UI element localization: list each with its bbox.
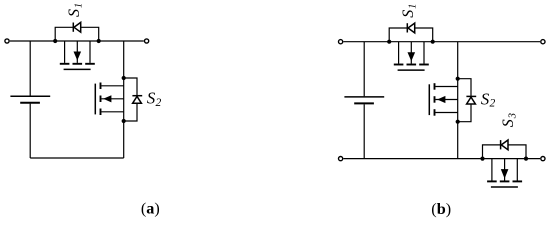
junction: S2 loop top node (a) — [122, 76, 126, 80]
junction: S3 right node (b) — [524, 157, 528, 161]
battery cell (a): negative plate — [20, 102, 40, 104]
transistor S1 MOSFET (a): body arrow — [74, 52, 82, 61]
wire: top bus (a) — [10, 40, 144, 42]
transistor S2 MOSFET (b): drain lead — [435, 86, 457, 88]
switch S1 (b): antiparallel-diode branch wire — [389, 28, 433, 42]
svg-text:(b): (b) — [431, 200, 451, 218]
transistor S3 MOSFET (b): channel segments — [487, 180, 522, 182]
transistor S2 MOSFET (b): channel segments — [434, 83, 436, 116]
node: left input terminal (a) — [5, 39, 9, 43]
transistor S1 MOSFET (a): source lead — [89, 41, 91, 63]
wire: battery positive lead (b) — [363, 42, 365, 97]
wire: bottom return bus (b) — [343, 158, 540, 160]
wire: bottom return bus (a) — [30, 157, 124, 159]
svg-text:S3: S3 — [500, 113, 519, 127]
transistor S1 MOSFET (b): body lead — [410, 42, 412, 64]
transistor S2 MOSFET (b): body lead — [435, 99, 457, 101]
transistor S2 MOSFET (a): source lead — [101, 111, 123, 113]
junction: S2 loop bottom node (b) — [456, 120, 460, 124]
transistor S3 MOSFET (b): body lead — [504, 159, 506, 181]
battery cell (b): positive plate — [344, 96, 384, 98]
svg-text:S2: S2 — [481, 89, 496, 109]
transistor S1 MOSFET (a): body lead — [76, 41, 78, 63]
transistor S1 MOSFET (a): drain lead — [64, 41, 66, 63]
transistor S2 MOSFET (b): source lead — [435, 112, 457, 114]
diode of S3 (b): triangle — [501, 140, 508, 150]
diode of S2 (b): cathode bar — [466, 95, 476, 97]
wire: battery negative lead (a) — [29, 104, 31, 158]
junction: S1 left node (a) — [53, 39, 57, 43]
wire: S2 antiparallel diode loop (a) — [124, 78, 137, 121]
transistor S2 MOSFET (a): drain lead — [101, 85, 123, 87]
transistor S1 MOSFET (b): source lead — [423, 42, 425, 64]
transistor S2 MOSFET (a): channel segments — [100, 83, 102, 116]
diode of S2 (a): cathode bar — [132, 95, 142, 97]
svg-text:S2: S2 — [147, 89, 162, 109]
switch S3 (b): antiparallel-diode branch wire — [483, 145, 527, 159]
transistor S1 MOSFET (b): drain lead — [398, 42, 400, 64]
node: right output terminal top (b) — [541, 40, 545, 44]
transistor S1 MOSFET (b): body arrow — [408, 52, 416, 61]
transistor S1 MOSFET (a): channel segments — [60, 63, 95, 65]
node: bottom left terminal (b) — [339, 157, 343, 161]
junction: S1 right node (b) — [431, 40, 435, 44]
svg-text:S1: S1 — [66, 3, 85, 17]
battery cell (b): negative plate — [354, 102, 374, 104]
wire: battery positive lead (a) — [29, 41, 31, 96]
wire: battery negative lead (b) — [363, 104, 365, 158]
transistor S2 MOSFET (b): gate electrode — [428, 84, 430, 115]
node: left input terminal (b) — [339, 40, 343, 44]
wire: S2 drain-source bus (a) — [123, 41, 125, 158]
diode of S2 (b): triangle — [467, 97, 476, 104]
junction: S1 right node (a) — [97, 39, 101, 43]
svg-text:S1: S1 — [400, 4, 419, 18]
diode of S1 (a): cathode bar — [72, 23, 74, 32]
transistor S3 MOSFET (b): drain lead — [491, 159, 493, 181]
transistor S3 MOSFET (b): source lead — [516, 159, 518, 181]
diode of S1 (b): cathode bar — [406, 23, 408, 32]
diode of S3 (b): cathode bar — [500, 140, 502, 149]
switch S1 (a): antiparallel-diode branch wire — [55, 27, 98, 41]
transistor S2 MOSFET (a): gate electrode — [94, 84, 96, 115]
battery cell (a): positive plate — [10, 95, 50, 97]
transistor S2 MOSFET (a): body arrow — [103, 95, 111, 102]
junction: S2 loop bottom node (a) — [122, 119, 126, 123]
transistor S1 MOSFET (b): channel segments — [394, 64, 429, 66]
junction: S1 left node (b) — [387, 40, 391, 44]
wire: top bus (b) — [343, 41, 540, 43]
junction: S2 loop top node (b) — [456, 77, 460, 81]
transistor S3 MOSFET (b): gate electrode — [491, 186, 518, 188]
svg-text:(a): (a) — [141, 200, 160, 218]
wire: S2 antiparallel diode loop (b) — [458, 79, 471, 122]
diode of S1 (b): triangle — [408, 23, 415, 33]
transistor S2 MOSFET (b): body arrow — [437, 96, 445, 103]
node: right output terminal (a) — [145, 39, 149, 43]
transistor S3 MOSFET (b): body arrow — [501, 169, 509, 179]
diode of S1 (a): triangle — [74, 22, 81, 32]
junction: S3 left node (b) — [480, 157, 484, 161]
transistor S1 MOSFET (a): gate electrode — [64, 68, 91, 70]
transistor S2 MOSFET (a): body lead — [101, 98, 123, 100]
diode of S2 (a): triangle — [133, 96, 142, 103]
wire: S2 drain-source bus (b) — [457, 42, 459, 159]
node: bottom right terminal (b) — [541, 157, 545, 161]
transistor S1 MOSFET (b): gate electrode — [398, 69, 425, 71]
